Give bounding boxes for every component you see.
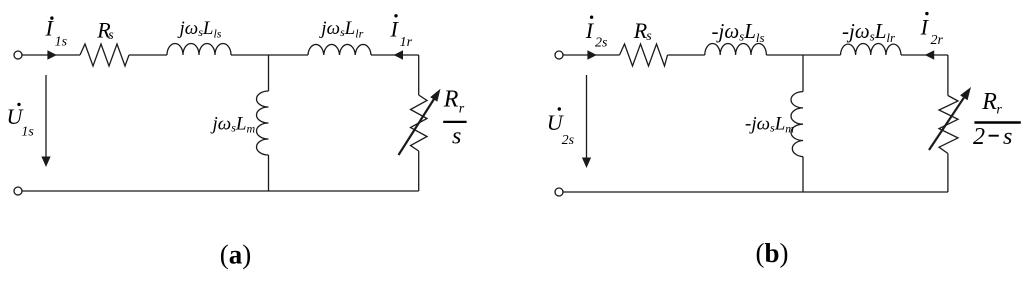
inductor Llr (a)	[308, 44, 371, 55]
wire: (a) right branch lower segment	[418, 151, 420, 191]
inductor Lls (a)	[167, 44, 231, 55]
resistor Rs (b)	[620, 44, 668, 66]
arrowhead: (b) variable resistor arrow	[960, 87, 971, 100]
wire: (a) bottom return	[22, 190, 419, 192]
wire: (a) Rs to Lls	[129, 54, 167, 56]
svg-text:1s: 1s	[55, 35, 68, 50]
inductor Lls (b)	[705, 43, 767, 55]
svg-text:-jωsLm: -jωsLm	[745, 113, 794, 135]
label U2s	[547, 107, 575, 148]
current arrow I1r	[394, 50, 403, 59]
svg-text:I: I	[920, 15, 930, 40]
svg-text:-jωsLlr: -jωsLlr	[842, 19, 896, 45]
svg-text:jωsLlr: jωsLlr	[318, 18, 363, 41]
wire: (b) bottom return	[563, 191, 948, 193]
svg-text:r: r	[996, 103, 1002, 118]
wire: (a) right branch upper segment	[418, 55, 420, 95]
current arrow I1s	[47, 50, 56, 59]
wire: (a) middle branch lower segment	[268, 155, 270, 191]
arrowhead: (a) variable resistor arrow	[430, 89, 440, 102]
terminal: circuit (a) input top	[14, 51, 22, 59]
svg-text:I: I	[585, 18, 595, 43]
label I2s	[585, 16, 608, 51]
inductor Lm (b)	[791, 92, 803, 157]
svg-text:2s: 2s	[595, 36, 608, 51]
svg-text:-jωsLls: -jωsLls	[712, 19, 765, 45]
inductor Lm (a)	[257, 91, 269, 155]
svg-text:jωsLm: jωsLm	[210, 113, 256, 135]
wire: (a) Llr to right corner	[371, 54, 419, 56]
svg-text:s: s	[646, 29, 652, 44]
svg-text:2: 2	[973, 124, 985, 150]
wire: (b) right branch lower segment	[947, 154, 949, 193]
svg-text:I: I	[390, 16, 400, 41]
wire: (b) middle branch upper segment	[802, 55, 804, 92]
label Rr/(2-s) value (b)	[973, 89, 1021, 150]
label I2r	[920, 12, 944, 48]
current arrow I2s	[587, 50, 596, 59]
svg-text:R: R	[981, 89, 997, 115]
wire: (a) variable resistor arrow shaft	[399, 99, 435, 155]
resistor Rr/(2-s) (b) zigzag	[939, 96, 958, 154]
wire: (a) middle branch upper segment	[268, 55, 270, 91]
svg-text:(a): (a)	[220, 240, 252, 270]
svg-text:2s: 2s	[562, 133, 575, 148]
svg-text:s: s	[1003, 124, 1012, 150]
inductor Llr (b)	[841, 43, 902, 55]
wire: (b) variable resistor arrow shaft	[929, 98, 964, 150]
wire: (a) top lead terminal to Rs	[22, 54, 80, 56]
wire: (b) top lead terminal to Rs	[563, 54, 619, 56]
wire: (b) voltage arrow shaft U2s	[586, 75, 588, 159]
wire: (b) Rs to Lls	[668, 54, 705, 56]
svg-text:r: r	[459, 102, 465, 117]
terminal: circuit (a) input bottom	[14, 187, 22, 195]
label U1s	[7, 103, 35, 140]
wire: (b) Lls to Llr through junction	[766, 54, 840, 56]
label Rs (b)	[633, 18, 653, 44]
terminal: circuit (b) input top	[555, 51, 563, 59]
arrowhead: (b) voltage arrow U2s	[582, 158, 591, 169]
wire: (b) Llr to right corner	[901, 54, 948, 56]
label Rr/s value (a)	[443, 86, 467, 149]
svg-text:s: s	[452, 124, 461, 150]
wire: (a) voltage arrow shaft U1s	[45, 75, 47, 158]
svg-text:jωsLls: jωsLls	[177, 18, 222, 41]
svg-text:U: U	[547, 110, 565, 135]
label I1s	[45, 16, 68, 50]
svg-text:(b): (b)	[756, 238, 789, 268]
terminal: circuit (b) input bottom	[555, 188, 563, 196]
wire: (b) right branch upper segment	[947, 55, 949, 96]
resistor Rr/s (a) zigzag	[411, 95, 428, 151]
resistor Rs (a)	[80, 44, 129, 66]
wire: (a) Lls to node M through junction	[231, 54, 308, 56]
current arrow I2r	[925, 50, 934, 59]
svg-text:2r: 2r	[931, 33, 944, 48]
svg-text:1s: 1s	[21, 125, 34, 140]
label Rs (a)	[96, 17, 114, 43]
label I1r	[390, 14, 413, 50]
arrowhead: (a) voltage arrow U1s	[41, 157, 50, 168]
svg-text:s: s	[108, 28, 114, 43]
wire: (b) middle branch lower segment	[802, 157, 804, 192]
svg-text:R: R	[443, 86, 459, 112]
svg-text:1r: 1r	[400, 35, 413, 50]
